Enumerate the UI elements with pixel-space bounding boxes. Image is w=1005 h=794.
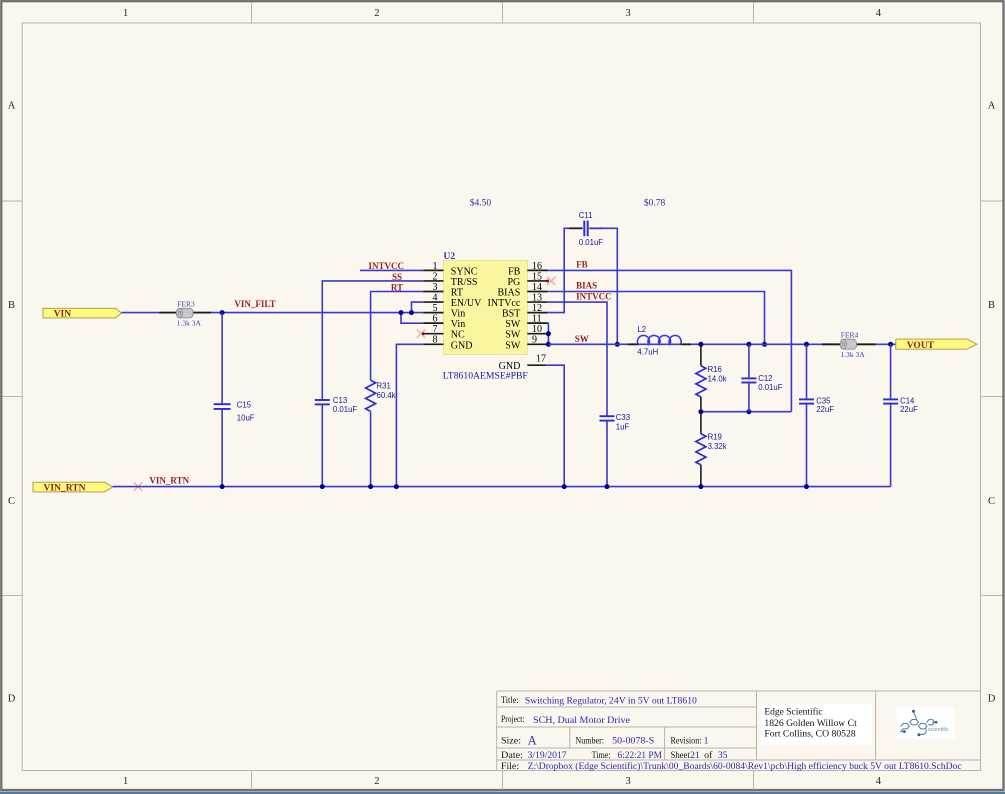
svg-text:B: B — [8, 300, 15, 311]
svg-text:Fort Collins, CO 80528: Fort Collins, CO 80528 — [764, 729, 855, 740]
svg-text:BIAS: BIAS — [498, 288, 521, 299]
svg-text:SW: SW — [505, 340, 521, 351]
svg-text:scientific: scientific — [928, 727, 949, 733]
svg-text:1: 1 — [704, 736, 709, 747]
IC U2 body — [444, 260, 528, 354]
resistor R19 — [696, 412, 727, 487]
svg-text:D: D — [988, 694, 996, 705]
svg-text:TR/SS: TR/SS — [451, 277, 478, 288]
svg-text:R31: R31 — [377, 382, 391, 391]
svg-text:C12: C12 — [758, 374, 772, 383]
svg-text:4: 4 — [876, 776, 882, 787]
svg-text:D: D — [8, 694, 16, 705]
wire BST to C11 — [548, 228, 582, 312]
svg-text:14: 14 — [532, 282, 542, 293]
svg-text:3/19/2017: 3/19/2017 — [528, 750, 567, 761]
svg-text:SCH, Dual Motor Drive: SCH, Dual Motor Drive — [533, 715, 631, 726]
svg-text:C14: C14 — [900, 396, 915, 405]
wire C11 to SW — [591, 228, 618, 344]
junction VIN_FILT / C15 — [220, 310, 225, 315]
svg-text:FB: FB — [576, 259, 588, 269]
port VIN_RTN — [33, 482, 113, 493]
svg-text:7: 7 — [433, 324, 438, 335]
wire GND pin8 — [396, 344, 423, 486]
svg-text:6:22:21 PM: 6:22:21 PM — [618, 750, 663, 761]
svg-text:15: 15 — [532, 271, 542, 282]
svg-text:4: 4 — [433, 292, 438, 303]
wire FB divider — [701, 411, 792, 413]
wire SW pins join — [547, 323, 550, 344]
wire BIAS — [548, 292, 765, 345]
svg-text:3: 3 — [433, 282, 438, 293]
wire FB — [548, 270, 792, 411]
svg-text:1.3k 3A: 1.3k 3A — [841, 350, 866, 359]
title block grid — [497, 691, 981, 771]
resistor R31 — [366, 380, 396, 486]
svg-text:Title:: Title: — [501, 695, 519, 706]
no-ERC X on pin 15 — [546, 277, 555, 285]
svg-text:A: A — [528, 734, 537, 748]
svg-text:Size:: Size: — [501, 736, 521, 747]
svg-text:22uF: 22uF — [816, 405, 834, 414]
svg-text:PG: PG — [508, 277, 521, 288]
svg-text:Z:\Dropbox (Edge Scientific)\T: Z:\Dropbox (Edge Scientific)\Trunk\00_Bo… — [528, 761, 963, 772]
ferrite bead FER4 — [822, 330, 876, 359]
svg-text:4.7uH: 4.7uH — [637, 348, 658, 357]
svg-text:C: C — [8, 496, 15, 507]
capacitor C11 — [569, 211, 603, 247]
svg-text:Revision:: Revision: — [671, 736, 702, 747]
junction rail / C35 — [804, 484, 809, 489]
svg-text:U2: U2 — [444, 252, 456, 262]
junction VOUT / BIAS — [762, 342, 767, 347]
svg-text:10: 10 — [532, 324, 542, 335]
junction divider / R16 — [698, 409, 703, 414]
junction divider / C12 — [746, 409, 751, 414]
junction SW / C12 — [746, 342, 751, 347]
svg-text:FB: FB — [508, 266, 521, 277]
svg-text:INTVCC: INTVCC — [576, 291, 612, 301]
svg-text:Date:: Date: — [501, 750, 523, 761]
resistor R16 — [696, 344, 727, 411]
svg-text:1: 1 — [123, 8, 128, 19]
junction rail / C15 — [220, 484, 225, 489]
junction SW / C11 — [615, 342, 620, 347]
svg-text:VIN_FILT: VIN_FILT — [234, 299, 275, 309]
wire EN/UV branch — [412, 302, 424, 313]
wire SW node — [548, 343, 895, 345]
svg-text:SS: SS — [392, 272, 402, 282]
svg-text:3: 3 — [625, 8, 630, 19]
capacitor C14 — [883, 344, 918, 486]
IC U2 pins right — [488, 261, 548, 352]
svg-text:Switching Regulator, 24V in 5V: Switching Regulator, 24V in 5V out LT861… — [525, 695, 697, 706]
svg-text:6: 6 — [433, 314, 438, 325]
junction SW pin9 — [546, 342, 551, 347]
file row — [501, 761, 962, 772]
wire INTVCC to C33 — [548, 302, 607, 416]
svg-text:35: 35 — [718, 750, 728, 761]
svg-text:Sheet: Sheet — [671, 750, 691, 761]
date row — [501, 750, 728, 761]
svg-text:14.0k: 14.0k — [708, 375, 727, 384]
svg-text:2: 2 — [374, 776, 379, 787]
no-connect X on pin 7 — [417, 330, 425, 338]
svg-text:2: 2 — [433, 271, 438, 282]
svg-text:5: 5 — [433, 303, 438, 314]
svg-text:13: 13 — [532, 292, 542, 303]
svg-text:EN/UV: EN/UV — [451, 298, 482, 309]
svg-text:INTVcc: INTVcc — [488, 298, 521, 309]
svg-text:of: of — [704, 750, 713, 761]
wire INTVCC pin1 — [360, 269, 423, 271]
svg-text:A: A — [988, 101, 996, 112]
capacitor C35 — [799, 344, 834, 486]
svg-text:16: 16 — [532, 261, 542, 272]
svg-text:Project:: Project: — [501, 714, 525, 725]
svg-text:8: 8 — [433, 335, 438, 346]
company logo — [897, 707, 955, 740]
svg-text:11: 11 — [532, 314, 542, 325]
svg-text:L2: L2 — [637, 325, 646, 334]
junction SW / C35 — [804, 342, 809, 347]
svg-text:INTVCC: INTVCC — [368, 261, 404, 271]
svg-text:GND: GND — [451, 340, 473, 351]
svg-text:3: 3 — [625, 776, 630, 787]
svg-text:BST: BST — [502, 309, 520, 320]
wire GND pad to rail — [546, 365, 565, 486]
svg-text:2: 2 — [374, 8, 379, 19]
junction SW pin10 — [546, 331, 551, 336]
ground rail wire VIN_RTN — [113, 486, 891, 488]
capacitor C15 — [214, 313, 255, 487]
svg-text:R16: R16 — [708, 365, 722, 374]
svg-text:SYNC: SYNC — [451, 266, 478, 277]
svg-text:60.4k: 60.4k — [377, 391, 396, 400]
svg-text:Vin: Vin — [451, 309, 465, 320]
svg-text:10uF: 10uF — [237, 414, 255, 423]
no-ERC marker on VIN_RTN — [134, 482, 142, 490]
ferrite bead FER3 — [159, 299, 211, 327]
svg-text:9: 9 — [532, 335, 537, 346]
project row — [501, 714, 631, 726]
inductor L2 — [628, 325, 691, 357]
svg-text:12: 12 — [532, 303, 542, 314]
svg-text:Vin: Vin — [451, 319, 465, 330]
wire Vin pin6 branch — [401, 313, 423, 324]
svg-text:VIN_RTN: VIN_RTN — [44, 483, 86, 493]
svg-text:C11: C11 — [579, 211, 593, 220]
company address — [761, 704, 872, 745]
svg-text:C: C — [988, 496, 995, 507]
svg-text:4: 4 — [876, 8, 882, 19]
svg-text:$0.78: $0.78 — [644, 198, 666, 209]
wire SS — [322, 281, 423, 400]
pin 17 GND pad — [499, 354, 546, 373]
svg-text:1uF: 1uF — [616, 422, 630, 431]
junction rail / R19 — [698, 484, 703, 489]
wire VIN to FER3 — [122, 312, 177, 314]
junction rail / C33 — [605, 484, 610, 489]
svg-text:FER3: FER3 — [177, 299, 195, 308]
capacitor C13 — [315, 396, 358, 487]
svg-text:LT8610AEMSE#PBF: LT8610AEMSE#PBF — [443, 371, 528, 381]
svg-text:C35: C35 — [816, 396, 831, 405]
svg-text:50-0078-S: 50-0078-S — [612, 736, 654, 747]
svg-text:0.01uF: 0.01uF — [333, 405, 358, 414]
junction SW / R16 — [698, 342, 703, 347]
svg-text:FER4: FER4 — [841, 330, 859, 339]
title row — [501, 695, 697, 706]
port VIN — [43, 308, 122, 319]
capacitor C12 — [741, 344, 782, 411]
svg-text:NC: NC — [451, 330, 465, 341]
svg-text:21: 21 — [690, 750, 700, 761]
svg-text:C13: C13 — [333, 396, 347, 405]
wire VIN_FILT — [222, 312, 423, 314]
svg-text:VIN: VIN — [54, 310, 72, 320]
svg-text:$4.50: $4.50 — [470, 198, 492, 209]
svg-text:File:: File: — [501, 761, 519, 772]
size row — [501, 734, 709, 748]
svg-text:17: 17 — [536, 354, 546, 365]
svg-text:SW: SW — [505, 319, 521, 330]
svg-text:RT: RT — [391, 282, 403, 292]
junction Vin / EN-UV — [409, 310, 414, 315]
svg-text:GND: GND — [499, 361, 521, 372]
svg-text:SW: SW — [575, 334, 589, 344]
svg-text:A: A — [8, 101, 16, 112]
svg-text:22uF: 22uF — [900, 405, 918, 414]
svg-text:1.3k 3A: 1.3k 3A — [177, 319, 202, 328]
junction rail / GND pad — [562, 484, 567, 489]
svg-text:1: 1 — [123, 776, 128, 787]
junction rail / U2 GND — [394, 484, 399, 489]
svg-text:Number:: Number: — [575, 736, 604, 747]
svg-text:1: 1 — [433, 261, 438, 272]
svg-text:R19: R19 — [708, 433, 722, 442]
svg-text:Time:: Time: — [592, 750, 611, 761]
svg-text:1826 Golden Willow Ct: 1826 Golden Willow Ct — [764, 718, 857, 729]
svg-text:BIAS: BIAS — [576, 281, 597, 291]
svg-text:3.32k: 3.32k — [708, 442, 727, 451]
svg-text:0.01uF: 0.01uF — [758, 383, 783, 392]
wire FER3 to VIN_FILT — [193, 312, 222, 314]
junction rail / C13 — [320, 484, 325, 489]
IC U2 pins left — [423, 261, 482, 352]
junction SW / C14 — [888, 342, 893, 347]
junction rail / R31 — [368, 484, 373, 489]
svg-text:B: B — [988, 300, 995, 311]
svg-text:0.01uF: 0.01uF — [579, 238, 604, 247]
svg-text:C15: C15 — [237, 401, 252, 410]
junction Vin / pin6 — [399, 310, 404, 315]
wire RT — [371, 292, 424, 381]
svg-text:SW: SW — [505, 330, 521, 341]
port VOUT — [896, 339, 977, 351]
svg-text:VIN_RTN: VIN_RTN — [149, 475, 189, 485]
svg-text:Edge Scientific: Edge Scientific — [764, 707, 823, 718]
svg-text:VOUT: VOUT — [907, 341, 935, 351]
svg-text:C33: C33 — [616, 413, 630, 422]
capacitor C33 — [600, 413, 631, 487]
svg-text:RT: RT — [451, 288, 463, 299]
